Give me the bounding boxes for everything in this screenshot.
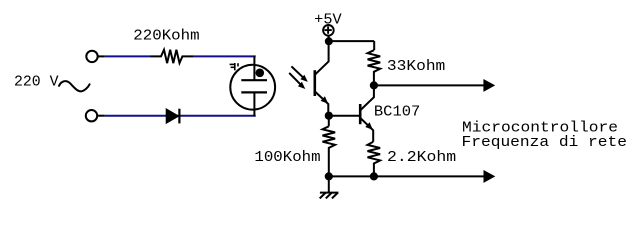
wire: base wire (329, 115, 359, 117)
diode D1 (166, 109, 179, 124)
optocoupler U1 bottom plate (241, 91, 267, 93)
wire: stem bottom of lamp (253, 92, 255, 116)
resistor R4 2.2Kohm (368, 142, 381, 177)
node D junction dot (370, 172, 378, 180)
svg-text:BC107: BC107 (374, 104, 420, 121)
optocoupler U1 top plate (241, 79, 267, 81)
svg-text:33Kohm: 33Kohm (387, 58, 445, 75)
light arrow 1 (291, 66, 307, 82)
resistor R2 33Kohm (368, 50, 381, 85)
wire: output line 1 (374, 84, 484, 86)
resistor R3 100Kohm (323, 126, 336, 176)
power terminal +5V (323, 25, 334, 41)
wire: output line 2 (329, 175, 484, 177)
AC sine symbol (59, 81, 90, 91)
arrow head output 1 (483, 79, 495, 92)
wire: T1 black stub (98, 55, 105, 57)
gas dot of lamp (255, 69, 264, 78)
optocoupler lamp U1: circle (230, 65, 275, 110)
wire: rail corner down (373, 41, 375, 50)
node B junction dot (370, 81, 378, 89)
transistor Q2 collector (360, 85, 374, 110)
resistor R1 220Kohm (151, 50, 194, 63)
small mark near lamp (230, 63, 238, 70)
svg-text:2.2Kohm: 2.2Kohm (387, 149, 456, 166)
wire: bottom blue (105, 115, 256, 117)
light arrow 2 (289, 73, 305, 89)
node C junction dot (325, 112, 333, 120)
wire: stem top into lamp (253, 56, 255, 81)
transistor Q2 emitter (360, 118, 373, 142)
wire: +5V rail to R2 (329, 40, 374, 42)
wire: down to R3 (328, 116, 330, 127)
terminal T1 (top) (86, 51, 97, 62)
transistor Q2 BC107 base bar (359, 104, 362, 124)
wire: top blue right (194, 55, 256, 57)
wire: T2 black stub (97, 115, 105, 117)
arrow head output 2 (484, 170, 496, 183)
node E junction dot (325, 172, 333, 180)
phototransistor Q1 collector (315, 41, 329, 75)
transistor Q2 emitter arrow (365, 122, 373, 130)
svg-text:+5V: +5V (314, 12, 341, 29)
phototransistor Q1 base bar (313, 70, 316, 96)
wire: top blue left (105, 55, 151, 57)
svg-text:Frequenza di rete: Frequenza di rete (462, 134, 628, 151)
svg-text:220Kohm: 220Kohm (133, 28, 199, 45)
ground (320, 176, 339, 198)
svg-text:100Kohm: 100Kohm (254, 149, 320, 166)
phototransistor Q1 emitter arrow (321, 96, 329, 104)
svg-text:220 V: 220 V (14, 74, 59, 91)
node A junction dot (325, 37, 333, 45)
terminal T2 (bottom) (86, 110, 97, 121)
phototransistor Q1 emitter (315, 91, 329, 115)
